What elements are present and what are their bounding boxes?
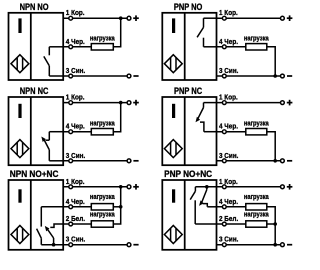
riser wire joining loads to + line U5 (NPN NO+NC)	[113, 187, 120, 224]
supply terminal circle U1 (NPN NO)	[127, 16, 131, 20]
svg-text:4 Чер.: 4 Чер.	[219, 199, 238, 206]
sensor internal divider U2 (PNP NO)	[184, 13, 186, 80]
svg-text:нагрузка: нагрузка	[90, 194, 115, 202]
switch seat stub U3 (NPN NC)	[46, 139, 50, 141]
supply terminal circle U5 (NPN NO+NC)	[127, 185, 131, 189]
svg-text:1 Кор.: 1 Кор.	[66, 94, 85, 101]
pin 3 circle U3 (NPN NC)	[69, 159, 73, 163]
contact arm barb U5 (NPN NO+NC)	[45, 226, 50, 232]
wire pin4 to load U1 (NPN NO)	[63, 46, 91, 48]
supply terminal circle U1 (NPN NO)	[127, 74, 131, 78]
NO switch bottom wire U5 (NPN NO+NC)	[40, 238, 42, 245]
load resistor box U1 (NPN NO)	[91, 44, 113, 50]
svg-text:3 Син.: 3 Син.	[66, 236, 86, 243]
wire pin3 to - terminal U1 (NPN NO)	[63, 75, 127, 77]
sensor internal divider U6 (PNP NO+NC)	[184, 180, 186, 250]
pin3 line inside box U3 (NPN NC)	[49, 160, 63, 162]
NO switch fixed contact U5 (NPN NO+NC)	[40, 207, 42, 227]
pin 1 circle U2 (PNP NO)	[222, 16, 226, 20]
supply terminal circle U3 (NPN NC)	[127, 101, 131, 105]
wire pin2 to load2 U5 (NPN NO+NC)	[63, 223, 91, 225]
switch wire from pin1 into box U4 (PNP NC)	[204, 102, 217, 104]
svg-text:3 Син.: 3 Син.	[219, 153, 239, 160]
switch wire from pin4 into box U1 (NPN NO)	[49, 46, 63, 48]
pin 3 circle U5 (NPN NO+NC)	[69, 243, 73, 247]
svg-text:PNP NO: PNP NO	[174, 2, 203, 12]
load resistor box U5 (NPN NO+NC)	[91, 221, 113, 227]
svg-text:нагрузка: нагрузка	[90, 35, 115, 43]
pin 4 circle U1 (NPN NO)	[69, 45, 73, 49]
wire pin1 to + terminal U4 (PNP NC)	[217, 102, 281, 104]
switch arm (NC closed) U4 (PNP NC)	[198, 108, 203, 119]
pin 3 circle U1 (NPN NO)	[69, 74, 73, 78]
pin3 line inside box U1 (NPN NO)	[49, 75, 63, 77]
pin3 line inside box U5 (NPN NO+NC)	[41, 244, 63, 246]
junction dot U3 (NPN NC)	[119, 101, 123, 105]
load resistor box U6 (PNP NO+NC)	[246, 221, 267, 227]
plus sign U3 (NPN NC)	[133, 102, 139, 104]
sensor body outline U4 (PNP NC)	[162, 97, 216, 165]
plus sign U1 (NPN NO)	[133, 17, 139, 19]
plus sign U2 (PNP NO)	[287, 17, 293, 19]
sensing face symbol (diamond) U3 (NPN NC)	[11, 140, 29, 158]
junction dot U5 (NPN NO+NC)	[119, 185, 123, 189]
switch arm (NC closed) U3 (NPN NC)	[44, 139, 50, 150]
sensor body outline U6 (PNP NO+NC)	[162, 180, 216, 250]
sensor internal divider U1 (NPN NO)	[30, 13, 32, 80]
svg-text:1 Кор.: 1 Кор.	[219, 94, 238, 101]
svg-text:4 Чер.: 4 Чер.	[219, 39, 238, 46]
sensor indicator bar U6 (PNP NO+NC)	[172, 189, 175, 202]
svg-text:NPN NO+NC: NPN NO+NC	[10, 169, 59, 179]
NC switch bottom wire U5 (NPN NO+NC)	[53, 238, 55, 245]
pin 3 circle U6 (PNP NO+NC)	[222, 243, 226, 247]
svg-text:3 Син.: 3 Син.	[66, 68, 86, 75]
NC switch fixed contact U6 (PNP NO+NC)	[206, 187, 208, 190]
diamond inner chord right U4 (PNP NC)	[175, 142, 177, 155]
NC switch wire from pin2 into box U5 (NPN NO+NC)	[50, 224, 63, 227]
switch arm (NO open) U2 (PNP NO)	[197, 27, 203, 37]
plus sign U6 (PNP NO+NC)	[287, 186, 293, 188]
wire pin3 to - terminal U3 (NPN NC)	[63, 160, 127, 162]
wire pin1 to + terminal U3 (NPN NC)	[63, 102, 127, 104]
wire pin4 to load U2 (PNP NO)	[217, 46, 246, 48]
pin 4 circle U6 (PNP NO+NC)	[222, 205, 226, 209]
contact arm barb U3 (NPN NC)	[41, 137, 46, 143]
supply terminal circle U3 (NPN NC)	[127, 159, 131, 163]
junction dot U1 (NPN NO)	[119, 16, 123, 20]
pin 1 circle U4 (PNP NC)	[222, 101, 226, 105]
pin1 wire into box U6 (PNP NO+NC)	[195, 186, 216, 188]
supply terminal circle U6 (PNP NO+NC)	[281, 243, 285, 247]
NO switch wire from pin4 into box U5 (NPN NO+NC)	[41, 206, 63, 208]
switch fixed contact U2 (PNP NO)	[203, 18, 205, 27]
sensor body outline U3 (NPN NC)	[9, 97, 64, 165]
junction dot U5 (NPN NO+NC)	[52, 243, 56, 247]
diamond inner chord right U6 (PNP NO+NC)	[175, 228, 177, 241]
pin 3 circle U4 (PNP NC)	[222, 159, 226, 163]
riser wire joining loads to - line U6 (PNP NO+NC)	[267, 207, 275, 245]
sensing face symbol (diamond) U2 (PNP NO)	[164, 55, 182, 73]
wire pin1 to + terminal U1 (NPN NO)	[63, 17, 127, 19]
svg-text:3 Син.: 3 Син.	[219, 68, 239, 75]
svg-text:1 Кор.: 1 Кор.	[219, 179, 238, 186]
wire pin1 to + terminal U2 (PNP NO)	[217, 17, 281, 19]
sensing face symbol (diamond) U1 (NPN NO)	[11, 55, 29, 73]
minus sign U2 (PNP NO)	[287, 75, 292, 77]
wire pin4 to load1 U6 (PNP NO+NC)	[217, 206, 246, 208]
load resistor box U6 (PNP NO+NC)	[246, 204, 267, 210]
switch wire from pin4 into box U3 (NPN NC)	[49, 131, 63, 133]
svg-text:4 Чер.: 4 Чер.	[219, 123, 238, 130]
diamond inner chord right U3 (NPN NC)	[22, 142, 24, 155]
svg-text:4 Чер.: 4 Чер.	[66, 199, 85, 206]
pin 2 circle U5 (NPN NO+NC)	[69, 222, 73, 226]
wire pin3 to - terminal U5 (NPN NO+NC)	[63, 244, 127, 246]
sensor body outline U5 (NPN NO+NC)	[9, 180, 64, 250]
svg-text:нагрузка: нагрузка	[244, 120, 269, 128]
svg-text:1 Кор.: 1 Кор.	[66, 179, 85, 186]
pin 1 circle U3 (NPN NC)	[69, 101, 73, 105]
supply terminal circle U5 (NPN NO+NC)	[127, 243, 131, 247]
load resistor box U3 (NPN NC)	[91, 129, 113, 135]
pin 4 circle U4 (PNP NC)	[222, 130, 226, 134]
sensor internal divider U3 (NPN NC)	[30, 97, 32, 165]
wire pin3 to - terminal U6 (PNP NO+NC)	[217, 244, 281, 246]
svg-text:NPN NC: NPN NC	[20, 87, 49, 97]
switch bottom stub to pin4 line U2 (PNP NO)	[203, 38, 205, 47]
svg-text:3 Син.: 3 Син.	[66, 153, 86, 160]
NC switch seat stub U6 (PNP NO+NC)	[203, 204, 208, 207]
diamond inner chord left U1 (NPN NO)	[16, 57, 18, 70]
switch fixed contact U1 (NPN NO)	[48, 47, 50, 56]
minus sign U3 (NPN NC)	[133, 160, 138, 162]
pin 4 circle U2 (PNP NO)	[222, 45, 226, 49]
diamond inner chord left U5 (NPN NO+NC)	[16, 228, 18, 241]
load resistor box U5 (NPN NO+NC)	[91, 204, 113, 210]
NO switch bottom stub to pin2 line U6 (PNP NO+NC)	[194, 200, 196, 224]
svg-text:нагрузка: нагрузка	[90, 120, 115, 128]
minus sign U6 (PNP NO+NC)	[287, 244, 292, 246]
svg-text:NPN NO: NPN NO	[20, 2, 50, 12]
wire load to - line (riser) U4 (PNP NC)	[267, 132, 275, 161]
svg-text:2 Бел.: 2 Бел.	[219, 216, 238, 223]
pin2 line inside box U6 (PNP NO+NC)	[195, 223, 216, 225]
pin4 line inside box U4 (PNP NC)	[204, 131, 217, 133]
sensor indicator bar U5 (NPN NO+NC)	[18, 189, 21, 202]
junction dot U6 (PNP NO+NC)	[273, 222, 277, 226]
wire pin4 to load U4 (PNP NC)	[217, 131, 246, 133]
svg-text:4 Чер.: 4 Чер.	[66, 123, 85, 130]
supply terminal circle U4 (PNP NC)	[281, 101, 285, 105]
pin 4 circle U5 (NPN NO+NC)	[69, 205, 73, 209]
NC switch arm U6 (PNP NO+NC)	[202, 190, 207, 203]
load resistor box U2 (PNP NO)	[246, 44, 267, 50]
minus sign U4 (PNP NC)	[287, 160, 292, 162]
sensor indicator bar U4 (PNP NC)	[172, 104, 175, 118]
svg-text:PNP NO+NC: PNP NO+NC	[164, 169, 212, 179]
diamond inner chord right U2 (PNP NO)	[175, 57, 177, 70]
supply terminal circle U2 (PNP NO)	[281, 74, 285, 78]
minus sign U1 (NPN NO)	[133, 75, 138, 77]
sensor indicator bar U2 (PNP NO)	[172, 18, 175, 33]
switch arm (NO open) U1 (NPN NO)	[44, 56, 50, 65]
junction dot U5 (NPN NO+NC)	[119, 205, 123, 209]
wire pin1 to + terminal U6 (PNP NO+NC)	[217, 186, 281, 188]
wire pin2 to load2 U6 (PNP NO+NC)	[217, 223, 246, 225]
sensing face symbol (diamond) U5 (NPN NO+NC)	[11, 226, 29, 244]
wire pin3 to - terminal U4 (PNP NC)	[217, 160, 281, 162]
svg-text:нагрузка: нагрузка	[244, 194, 269, 202]
svg-text:4 Чер.: 4 Чер.	[66, 39, 85, 46]
pin4 line inside box U2 (PNP NO)	[204, 46, 217, 48]
plus sign U4 (PNP NC)	[287, 102, 293, 104]
diamond inner chord right U1 (NPN NO)	[22, 57, 24, 70]
supply terminal circle U2 (PNP NO)	[281, 16, 285, 20]
pin4 line inside box U6 (PNP NO+NC)	[207, 206, 216, 208]
sensor body outline U1 (NPN NO)	[9, 13, 64, 80]
pin 2 circle U6 (PNP NO+NC)	[222, 222, 226, 226]
pin 1 circle U1 (NPN NO)	[69, 16, 73, 20]
minus sign U5 (NPN NO+NC)	[133, 244, 138, 246]
load resistor box U4 (PNP NC)	[246, 129, 267, 135]
plus sign U5 (NPN NO+NC)	[133, 186, 139, 188]
junction dot U2 (PNP NO)	[273, 74, 277, 78]
junction dot U4 (PNP NC)	[273, 159, 277, 163]
switch fixed contact U3 (NPN NC)	[48, 132, 50, 141]
switch fixed contact U4 (PNP NC)	[203, 103, 205, 108]
junction dot U6 (PNP NO+NC)	[273, 243, 277, 247]
NO switch arm U6 (PNP NO+NC)	[190, 191, 195, 199]
switch bottom wire to pin3 line U1 (NPN NO)	[48, 66, 50, 76]
diamond inner chord left U2 (PNP NO)	[170, 57, 172, 70]
pin 4 circle U3 (NPN NC)	[69, 130, 73, 134]
pin 1 circle U6 (PNP NO+NC)	[222, 185, 226, 189]
wire pin1 to + terminal U5 (NPN NO+NC)	[63, 186, 127, 188]
switch bottom wire to pin3 line U3 (NPN NC)	[48, 150, 50, 161]
contact arm barb U4 (PNP NC)	[196, 117, 201, 123]
svg-text:1 Кор.: 1 Кор.	[219, 10, 238, 17]
diamond inner chord left U6 (PNP NO+NC)	[170, 228, 172, 241]
diamond inner chord right U5 (NPN NO+NC)	[22, 228, 24, 241]
wire load to + line (riser) U3 (NPN NC)	[113, 103, 120, 132]
switch seat stub U4 (PNP NC)	[200, 122, 204, 132]
sensing face symbol (diamond) U4 (PNP NC)	[164, 140, 182, 158]
NO switch fixed contact U6 (PNP NO+NC)	[194, 187, 196, 191]
svg-text:нагрузка: нагрузка	[90, 211, 115, 219]
sensor body outline U2 (PNP NO)	[162, 13, 216, 80]
NO switch arm U5 (NPN NO+NC)	[37, 229, 42, 239]
junction dot U6 (PNP NO+NC)	[205, 185, 209, 189]
sensing face symbol (diamond) U6 (PNP NO+NC)	[164, 226, 182, 244]
wire pin4 to load U3 (NPN NC)	[63, 131, 91, 133]
wire load1 to riser U5 (NPN NO+NC)	[113, 206, 120, 208]
svg-text:нагрузка: нагрузка	[244, 35, 269, 43]
contact arm barb U6 (PNP NO+NC)	[199, 200, 204, 206]
diamond inner chord left U3 (NPN NC)	[16, 142, 18, 155]
wire pin4 to load1 U5 (NPN NO+NC)	[63, 206, 91, 208]
sensor indicator bar U1 (NPN NO)	[18, 18, 21, 33]
svg-text:PNP NC: PNP NC	[174, 87, 202, 97]
wire load to - line (riser) U2 (PNP NO)	[267, 47, 275, 76]
svg-text:нагрузка: нагрузка	[244, 211, 269, 219]
sensor indicator bar U3 (NPN NC)	[18, 104, 21, 118]
wire pin3 to - terminal U2 (PNP NO)	[217, 75, 281, 77]
wire load2 to riser U6 (PNP NO+NC)	[267, 223, 275, 225]
svg-text:1 Кор.: 1 Кор.	[66, 10, 85, 17]
pin 3 circle U2 (PNP NO)	[222, 74, 226, 78]
svg-text:2 Бел.: 2 Бел.	[66, 216, 85, 223]
sensor internal divider U4 (PNP NC)	[184, 97, 186, 165]
sensor internal divider U5 (NPN NO+NC)	[30, 180, 32, 250]
switch wire from pin1 into box U2 (PNP NO)	[204, 17, 217, 19]
supply terminal circle U6 (PNP NO+NC)	[281, 185, 285, 189]
wire load to + line (riser) U1 (NPN NO)	[113, 18, 120, 47]
diamond inner chord left U4 (PNP NC)	[170, 142, 172, 155]
supply terminal circle U4 (PNP NC)	[281, 159, 285, 163]
pin 1 circle U5 (NPN NO+NC)	[69, 185, 73, 189]
NC switch arm U5 (NPN NO+NC)	[47, 229, 54, 238]
svg-text:3 Син.: 3 Син.	[219, 236, 239, 243]
